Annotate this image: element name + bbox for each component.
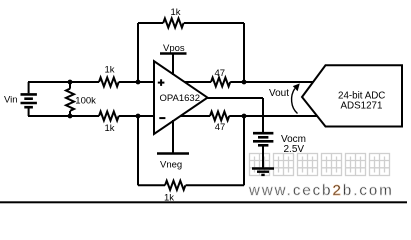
battery Vin (28, 82, 30, 93)
wire top input row (28, 81, 99, 83)
resistor 100k (69, 82, 71, 89)
wire bottom output (180, 115, 210, 117)
svg-text:ADS1271: ADS1271 (341, 101, 383, 112)
resistor 1k bottom feedback (165, 181, 185, 190)
resistor 1k bottom input (99, 112, 119, 121)
svg-text:47: 47 (215, 68, 226, 79)
junction 100k top node (68, 80, 73, 85)
svg-text:1k: 1k (105, 123, 115, 134)
wire (119, 81, 154, 83)
svg-text:47: 47 (215, 122, 226, 133)
Vpos supply (172, 54, 174, 76)
svg-text:OPA1632: OPA1632 (160, 93, 201, 104)
wire vocm mid line from apex (208, 97, 264, 99)
svg-text:100k: 100k (75, 95, 96, 106)
junction 100k bottom node (68, 114, 73, 119)
svg-text:Vin: Vin (4, 95, 18, 106)
resistor 1k top feedback (163, 18, 183, 27)
wire (119, 115, 154, 117)
svg-text:1k: 1k (171, 7, 181, 18)
junction top feedback input node (136, 80, 141, 85)
Vneg supply (172, 120, 174, 154)
Vout arrow arc (292, 89, 298, 114)
junction bottom feedback input node (136, 114, 141, 119)
resistor 1k top input (99, 78, 119, 87)
watermark chinese characters (250, 154, 390, 176)
feedback top loop (137, 23, 139, 82)
plus input sign (158, 79, 165, 86)
svg-text:2.5V: 2.5V (284, 144, 305, 155)
wire top output (185, 81, 212, 83)
svg-text:Vneg: Vneg (160, 160, 182, 171)
minus input sign (159, 117, 165, 119)
Vout arrowhead (293, 83, 300, 91)
ADC ADS1271 pentagon (302, 65, 402, 126)
svg-text:www.cecb2b.com: www.cecb2b.com (248, 182, 394, 199)
svg-text:1k: 1k (164, 193, 174, 204)
feedback bottom loop (137, 116, 139, 185)
ground (252, 169, 274, 175)
svg-text:1k: 1k (105, 65, 115, 76)
battery Vocm (253, 133, 273, 145)
bottom border line (0, 201, 407, 203)
wire bottom input row (28, 115, 99, 117)
resistor 47 top (211, 78, 230, 87)
svg-text:Vout: Vout (269, 88, 289, 99)
junction bottom feedback output node (242, 114, 247, 119)
resistor 47 bottom (210, 112, 229, 121)
junction top feedback output node (242, 80, 247, 85)
op-amp OPA1632 triangle (154, 61, 208, 134)
svg-text:Vpos: Vpos (163, 43, 185, 54)
